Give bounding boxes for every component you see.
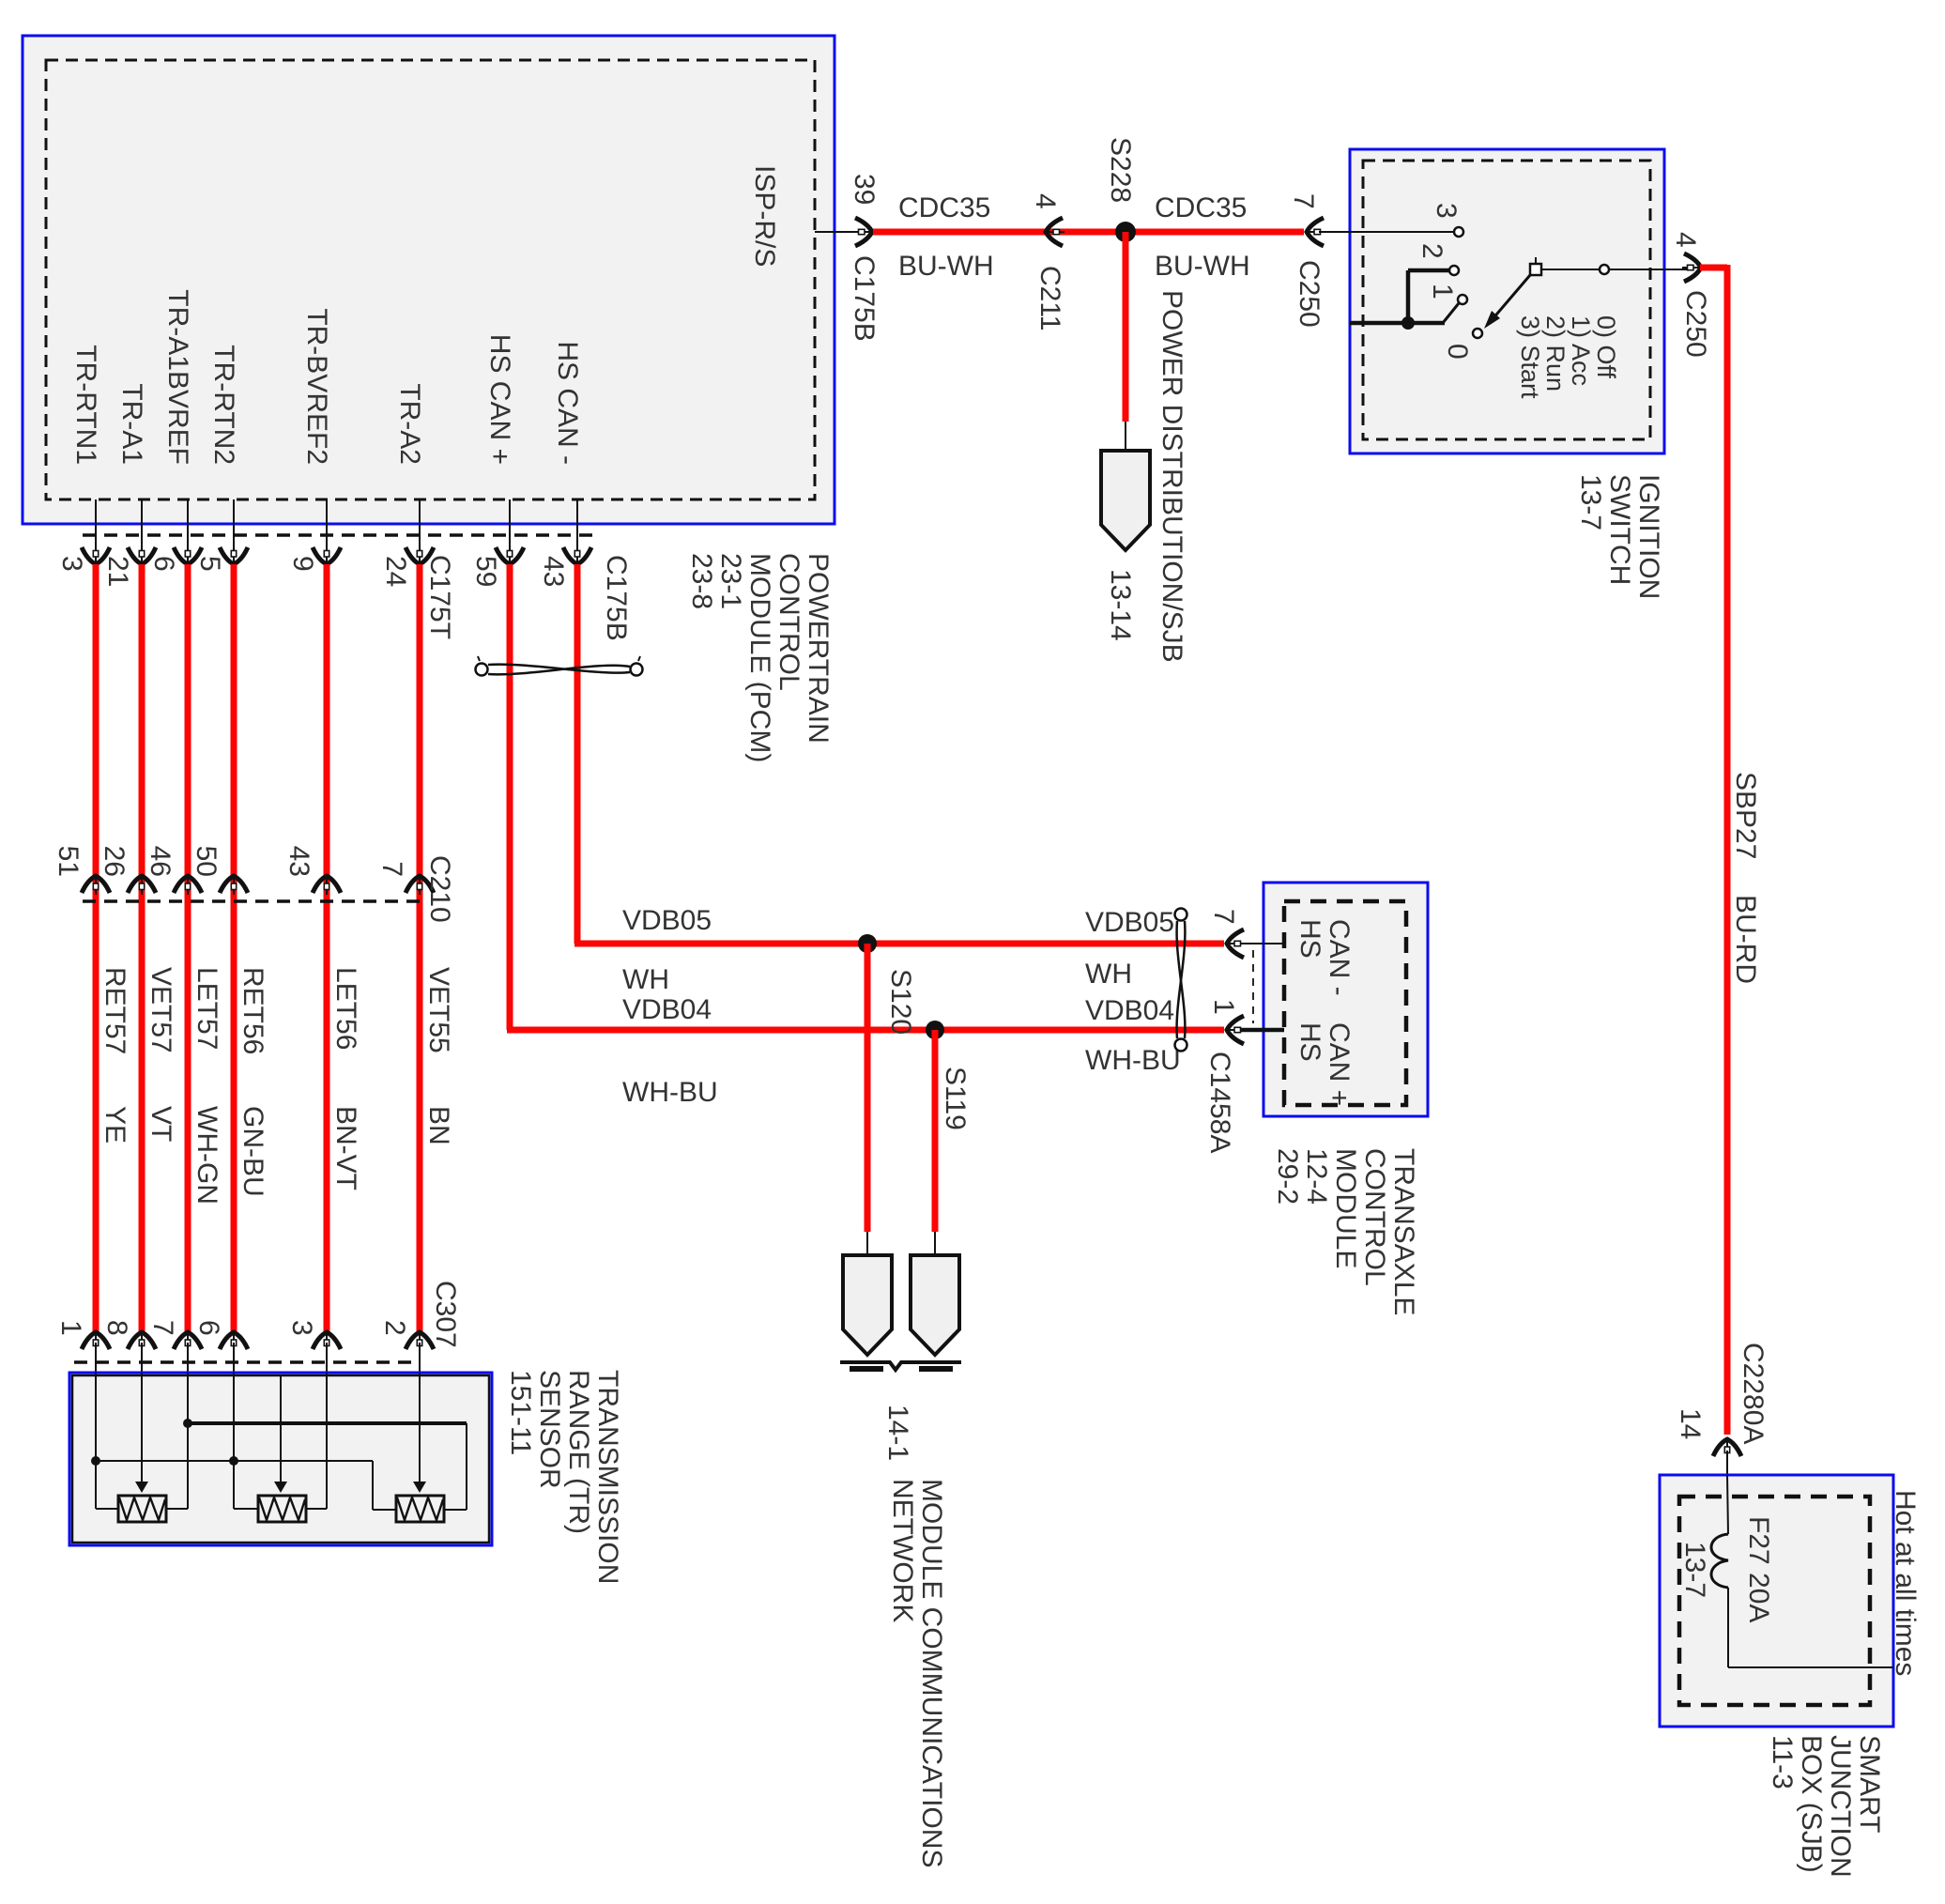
svg-text:14-1: 14-1 <box>882 1405 913 1461</box>
wire stub to power distribution <box>1125 422 1126 453</box>
svg-text:MODULE (PCM): MODULE (PCM) <box>744 553 775 762</box>
junction TR pin1/thin bus <box>91 1456 100 1466</box>
svg-text:BU-WH: BU-WH <box>898 251 994 282</box>
svg-text:11-3: 11-3 <box>1767 1735 1798 1789</box>
svg-text:46: 46 <box>145 846 176 877</box>
wire SJB to fuse <box>1727 1475 1728 1534</box>
wire ignition feed to contact 2 <box>1408 269 1448 273</box>
junction ignition feed <box>1401 316 1415 330</box>
svg-text:BN-VT: BN-VT <box>330 1106 361 1190</box>
svg-text:12-4: 12-4 <box>1301 1148 1332 1205</box>
svg-text:23-1: 23-1 <box>715 553 746 609</box>
connector C307 arrow pin 2 <box>406 1332 434 1351</box>
svg-text:LET57: LET57 <box>191 967 222 1050</box>
svg-text:51: 51 <box>53 846 84 877</box>
svg-text:TR-A1: TR-A1 <box>116 383 147 465</box>
connector C1458A dashed line <box>1252 950 1254 1023</box>
svg-text:SMART: SMART <box>1854 1735 1885 1833</box>
wire SBP27 BU-RD <box>1724 265 1731 1435</box>
module smart junction box <box>1660 1475 1893 1727</box>
ignition output contact <box>1600 265 1609 274</box>
svg-text:TRANSMISSION: TRANSMISSION <box>592 1370 623 1584</box>
connector C175 arrow pin 5 <box>220 545 248 564</box>
connector C307 arrow pin 7 <box>174 1332 202 1351</box>
svg-text:BU-WH: BU-WH <box>1155 251 1250 282</box>
svg-text:0: 0 <box>1442 344 1473 360</box>
wire TR thin bus down leg <box>372 1461 374 1510</box>
wire circuit from PCM pin 6 <box>185 564 191 1331</box>
svg-text:C250: C250 <box>1294 260 1325 328</box>
svg-text:POWER DISTRIBUTION/SJB: POWER DISTRIBUTION/SJB <box>1156 290 1187 663</box>
wire stub PCM HS CAN - <box>576 499 578 549</box>
svg-text:VET55: VET55 <box>423 967 454 1053</box>
connector C211 arrow pin 4 <box>1046 218 1064 246</box>
svg-text:3) Start: 3) Start <box>1516 315 1544 399</box>
svg-text:BN: BN <box>423 1106 454 1145</box>
wire TR internal pin7 drop <box>187 1373 189 1509</box>
wire TR internal pin6 drop <box>233 1373 235 1509</box>
svg-text:59: 59 <box>470 556 501 587</box>
svg-text:13-14: 13-14 <box>1105 569 1136 641</box>
svg-text:1) Acc: 1) Acc <box>1567 315 1595 386</box>
wire stub TR sensor pin 2 <box>419 1343 421 1376</box>
wire stub PCM TR-A2 <box>419 499 421 549</box>
svg-text:8: 8 <box>101 1320 132 1336</box>
svg-text:NETWORK: NETWORK <box>887 1479 918 1622</box>
connector C307 arrow pin 1 <box>82 1332 110 1351</box>
svg-text:3: 3 <box>286 1320 317 1336</box>
svg-text:9: 9 <box>287 556 318 572</box>
svg-text:Hot at all times: Hot at all times <box>1890 1490 1921 1676</box>
connector C175 arrow pin 24 <box>406 545 434 564</box>
connector C210 arrow pin 26 <box>128 876 156 895</box>
svg-text:GN-BU: GN-BU <box>237 1106 268 1197</box>
wire HS CAN - (VDB05 WH) <box>574 564 581 944</box>
svg-text:2: 2 <box>1417 243 1447 259</box>
PCM connector dashed outline <box>46 60 815 499</box>
svg-text:S120: S120 <box>885 969 916 1035</box>
svg-text:CAN -: CAN - <box>1324 919 1355 996</box>
svg-text:TR-A2: TR-A2 <box>394 383 425 465</box>
connector C175 dashed line <box>83 533 592 537</box>
connector C250 arrow pin 7 <box>1307 218 1325 246</box>
wire circuit from PCM pin 21 <box>139 564 145 1331</box>
svg-text:50: 50 <box>191 846 222 877</box>
svg-text:13-7: 13-7 <box>1679 1542 1710 1598</box>
off-page connector module communications 2 <box>911 1255 959 1355</box>
svg-text:JUNCTION: JUNCTION <box>1825 1735 1856 1878</box>
wire stub PCM TR-BVREF2 <box>326 499 328 549</box>
wire stub PCM TR-RTN1 <box>95 499 97 549</box>
svg-text:3: 3 <box>1431 203 1462 219</box>
svg-text:CDC35: CDC35 <box>1155 192 1247 223</box>
svg-text:CAN +: CAN + <box>1324 1022 1355 1106</box>
svg-text:43: 43 <box>283 846 314 877</box>
wire ignition feed to contact 1 <box>1443 303 1459 323</box>
ignition rotor arm <box>1492 275 1530 320</box>
svg-text:HS CAN +: HS CAN + <box>484 334 515 465</box>
connector C175 arrow pin 21 <box>128 545 156 564</box>
module ignition switch box <box>1350 149 1664 453</box>
svg-text:RET57: RET57 <box>100 967 130 1054</box>
wire circuit from PCM pin 5 <box>231 564 237 1331</box>
wire circuit from PCM pin 3 <box>93 564 100 1331</box>
wire TR thin bus <box>96 1460 373 1462</box>
connector C175 arrow pin 6 <box>174 545 202 564</box>
resistor R1 (TR sensor) <box>118 1496 166 1522</box>
connector C307 arrow pin 8 <box>128 1332 156 1351</box>
module PCM box <box>23 36 835 524</box>
svg-text:POWERTRAIN: POWERTRAIN <box>803 553 834 744</box>
wire stub TR sensor pin 3 <box>326 1343 328 1376</box>
svg-text:1: 1 <box>1208 999 1239 1015</box>
svg-text:7: 7 <box>376 861 407 877</box>
arrow into resistor R3 <box>413 1482 426 1493</box>
ignition switch contact 0 <box>1473 329 1482 338</box>
wire TR thin bus to R3 left <box>373 1509 396 1511</box>
connector C1458A arrow pin 1 <box>1227 1016 1246 1044</box>
junction TR pin6/thin bus <box>229 1456 238 1466</box>
wire into SJB <box>1726 1451 1728 1476</box>
wire S119 drop <box>932 1030 939 1232</box>
svg-text:F27 20A: F27 20A <box>1743 1516 1774 1622</box>
bracket 14-1 <box>840 1362 961 1370</box>
svg-text:MODULE: MODULE <box>1330 1148 1361 1268</box>
svg-text:WH-GN: WH-GN <box>191 1106 222 1205</box>
junction S120 <box>858 934 877 953</box>
connector C210 arrow pin 46 <box>174 876 202 895</box>
svg-text:ISP-R/S: ISP-R/S <box>749 165 780 267</box>
twisted pair symbol (HS CAN at C175B) <box>476 656 643 676</box>
svg-text:7: 7 <box>147 1320 178 1336</box>
svg-text:SWITCH: SWITCH <box>1604 474 1635 585</box>
connector C175 arrow pin 59 <box>496 545 524 564</box>
ignition switch contact 1 <box>1458 295 1467 304</box>
svg-text:SBP27: SBP27 <box>1730 772 1761 859</box>
wire TR thick bus down leg <box>466 1423 467 1510</box>
svg-text:VDB05: VDB05 <box>622 905 712 936</box>
wire TR internal pin8 drop <box>141 1373 143 1482</box>
svg-text:151-11: 151-11 <box>505 1370 536 1455</box>
svg-text:7: 7 <box>1288 193 1319 209</box>
svg-text:C250: C250 <box>1680 290 1711 358</box>
svg-text:5: 5 <box>194 556 225 572</box>
svg-text:43: 43 <box>538 556 569 587</box>
ignition rotor pivot <box>1530 264 1541 275</box>
svg-text:HS CAN -: HS CAN - <box>552 341 583 465</box>
svg-text:CONTROL: CONTROL <box>773 553 804 691</box>
junction S228 <box>1115 222 1136 242</box>
svg-text:23-8: 23-8 <box>686 553 717 609</box>
svg-text:YE: YE <box>100 1106 130 1144</box>
wire from fuse <box>1727 1588 1729 1667</box>
arrow into resistor R2 <box>274 1482 287 1493</box>
wire PCM pin 39 stub <box>815 231 862 233</box>
connector C307 dashed line <box>74 1360 412 1364</box>
wire S228 feed drop <box>1123 232 1129 422</box>
wire into ignition switch <box>1319 231 1454 233</box>
wire stub PCM TR-A1 <box>141 499 143 549</box>
wire circuit from PCM pin 24 <box>417 564 423 1331</box>
connector C175B pin 39 arrow <box>853 218 872 246</box>
svg-text:WH-BU: WH-BU <box>1085 1045 1181 1076</box>
connector C210 arrow pin 43 <box>313 876 341 895</box>
wire stub to module comms 2 <box>934 1232 936 1256</box>
wire SBP27 horizontal <box>1700 265 1727 271</box>
wire rotor to output contact <box>1541 269 1599 270</box>
module TCM box <box>1263 883 1428 1116</box>
svg-text:VDB04: VDB04 <box>1085 995 1174 1026</box>
wire TR pin3 to R2 right <box>306 1508 327 1510</box>
wire ignition feed up leg <box>1406 270 1411 323</box>
svg-text:24: 24 <box>380 556 411 587</box>
svg-text:S119: S119 <box>940 1067 971 1130</box>
svg-text:S228: S228 <box>1105 137 1136 203</box>
module Transmission Range sensor box <box>69 1373 492 1545</box>
svg-text:VDB04: VDB04 <box>622 994 712 1025</box>
wire TR pin7 to R1 right <box>166 1508 188 1510</box>
connector C250 arrow pin 4 <box>1682 253 1701 282</box>
svg-text:WH: WH <box>622 964 669 995</box>
svg-text:6: 6 <box>148 556 179 572</box>
svg-text:C2280A: C2280A <box>1738 1343 1769 1444</box>
svg-text:14: 14 <box>1675 1408 1706 1439</box>
svg-text:C175B: C175B <box>601 555 632 641</box>
svg-text:C307: C307 <box>430 1281 461 1348</box>
svg-text:TR-RTN1: TR-RTN1 <box>70 345 101 465</box>
svg-text:VET57: VET57 <box>145 967 176 1053</box>
connector C210 arrow pin 50 <box>220 876 248 895</box>
svg-text:CONTROL: CONTROL <box>1359 1148 1390 1286</box>
svg-text:TR-RTN2: TR-RTN2 <box>208 345 239 465</box>
svg-text:BOX (SJB): BOX (SJB) <box>1796 1735 1827 1873</box>
svg-text:VT: VT <box>145 1106 176 1142</box>
svg-text:39: 39 <box>849 174 880 205</box>
wire TR internal pin1 drop <box>95 1373 97 1509</box>
svg-text:C175T: C175T <box>424 555 455 639</box>
svg-text:2: 2 <box>379 1320 410 1336</box>
svg-text:C1458A: C1458A <box>1204 1052 1235 1153</box>
svg-text:BU-RD: BU-RD <box>1730 895 1761 984</box>
wire TCM CAN+ stub thick <box>1241 1028 1284 1033</box>
connector C210 arrow pin 7 <box>406 876 434 895</box>
svg-text:MODULE COMMUNICATIONS: MODULE COMMUNICATIONS <box>916 1479 947 1867</box>
svg-text:21: 21 <box>102 556 133 587</box>
wire TCM CAN- stub <box>1241 943 1284 944</box>
svg-text:C210: C210 <box>424 855 455 923</box>
wire TR internal pin3 drop <box>326 1373 328 1509</box>
connector C210 arrow pin 51 <box>82 876 110 895</box>
svg-text:WH-BU: WH-BU <box>622 1077 718 1108</box>
svg-text:TRANSAXLE: TRANSAXLE <box>1388 1148 1419 1315</box>
svg-text:1: 1 <box>55 1320 86 1336</box>
svg-text:LET56: LET56 <box>330 967 361 1050</box>
connector C307 arrow pin 3 <box>313 1332 341 1351</box>
svg-text:SENSOR: SENSOR <box>534 1370 565 1489</box>
wire TR pin6 to R2 left <box>234 1508 258 1510</box>
wire stub PCM TR-RTN2 <box>233 499 235 549</box>
arrow into resistor R1 <box>135 1482 148 1493</box>
svg-text:TR-A1BVREF: TR-A1BVREF <box>162 289 193 465</box>
svg-text:2) Run: 2) Run <box>1541 315 1570 392</box>
wire stub TR sensor pin 8 <box>141 1343 143 1376</box>
svg-text:7: 7 <box>1208 909 1239 925</box>
wire stub PCM HS CAN + <box>509 499 511 549</box>
wire CDC35 BU-WH <box>873 229 1304 236</box>
wire stub PCM TR-A1BVREF <box>187 499 189 549</box>
svg-text:26: 26 <box>99 846 130 877</box>
wire ignition output <box>1610 269 1690 270</box>
connector C307 arrow pin 6 <box>220 1332 248 1351</box>
svg-text:0) Off: 0) Off <box>1592 315 1620 379</box>
svg-text:29-2: 29-2 <box>1272 1148 1303 1205</box>
off-page connector module communications 1 <box>843 1255 892 1355</box>
svg-text:HS: HS <box>1294 1022 1325 1062</box>
wire fuse to SJB edge <box>1728 1666 1893 1668</box>
wire stub TR sensor pin 1 <box>95 1343 97 1376</box>
wire TR bus to R3 right <box>444 1509 467 1511</box>
wire stub TR sensor pin 7 <box>187 1343 189 1376</box>
svg-text:1: 1 <box>1427 284 1458 299</box>
svg-text:6: 6 <box>193 1320 224 1336</box>
svg-text:3: 3 <box>56 556 87 572</box>
connector C175 arrow pin 43 <box>563 545 591 564</box>
connector C175 arrow pin 9 <box>313 545 341 564</box>
wire circuit from PCM pin 9 <box>324 564 330 1331</box>
svg-text:TR-BVREF2: TR-BVREF2 <box>301 308 332 465</box>
twisted pair symbol (CAN at C1458A) <box>1175 909 1187 1052</box>
svg-text:VDB05: VDB05 <box>1085 907 1174 938</box>
svg-text:RET56: RET56 <box>237 967 268 1054</box>
wire stub TR sensor pin 6 <box>233 1343 235 1376</box>
svg-text:4: 4 <box>1030 193 1061 209</box>
off-page connector POWER DISTRIBUTION/SJB <box>1101 451 1150 550</box>
wire stub to module comms 1 <box>866 1232 868 1256</box>
svg-text:WH: WH <box>1085 959 1132 990</box>
wire TR pin1 to R1 left <box>96 1508 118 1510</box>
ignition switch contact 3 <box>1454 227 1463 237</box>
svg-text:4: 4 <box>1670 232 1701 248</box>
wire S120 drop <box>865 944 871 1232</box>
resistor R3 (TR sensor) <box>396 1496 444 1522</box>
svg-text:C175B: C175B <box>849 255 880 342</box>
svg-text:CDC35: CDC35 <box>898 192 990 223</box>
svg-text:HS: HS <box>1294 919 1325 959</box>
connector C210 dashed line <box>83 899 424 903</box>
svg-text:13-7: 13-7 <box>1575 474 1606 530</box>
resistor R2 (TR sensor) <box>258 1496 306 1522</box>
svg-text:C211: C211 <box>1034 266 1065 331</box>
junction S119 <box>926 1021 944 1039</box>
wire ignition feed thick <box>1350 321 1445 326</box>
ignition switch contact 2 <box>1449 266 1459 275</box>
wire TR internal pin2 drop <box>419 1373 421 1482</box>
wire TR top edge to R2 arrow <box>280 1376 282 1482</box>
connector C2280A arrow pin 14 <box>1713 1439 1741 1458</box>
connector C1458A arrow pin 7 <box>1227 929 1246 958</box>
junction TR pin7/thick bus <box>183 1419 192 1428</box>
fuse F27 20A <box>1711 1534 1728 1588</box>
svg-text:RANGE (TR): RANGE (TR) <box>563 1370 594 1534</box>
wire TR thick bus <box>188 1421 467 1425</box>
connector C175 arrow pin 3 <box>82 545 110 564</box>
svg-text:IGNITION: IGNITION <box>1633 474 1664 599</box>
wire HS CAN + (VDB04 WH-BU) <box>507 564 513 1030</box>
